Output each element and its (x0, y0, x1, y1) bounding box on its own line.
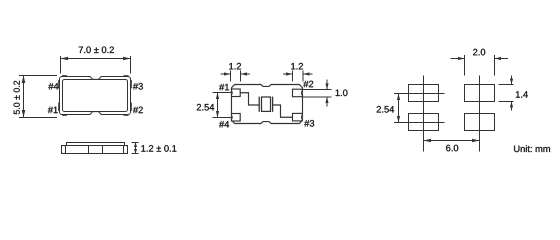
dimension 5.0 arrow down (22, 110, 26, 118)
dim 2.54 arrow up (216, 93, 219, 100)
crystal left plate (258, 97, 260, 112)
dim 1.0 arrow tails (326, 80, 328, 90)
dim 1.4 arrow tails (511, 76, 513, 85)
dimension 1.2 arrow down (134, 149, 137, 154)
dimension 1.2 line (135, 143, 137, 154)
dim 6.0 line (424, 140, 480, 142)
side view left end cap (62, 146, 66, 154)
dim 2.0 arrow pointing left (495, 57, 502, 60)
dimension text 1.4 (516, 91, 528, 97)
corner castellation step top-right (side) (130, 80, 132, 89)
pad #3 (bottom view bottom-right) (293, 113, 303, 121)
dim 1.4 ext line bottom (499, 101, 514, 103)
crystal right plate (272, 97, 274, 112)
pad label #1 (48, 107, 58, 113)
dim 1.4 ext line top (499, 84, 514, 86)
top edge notch erase (91, 76, 101, 78)
dim 1.2 left arrow pointing right (224, 72, 231, 75)
corner castellation step bottom-right (bottom) (124, 114, 129, 116)
dimension 7.0 arrow left (61, 57, 69, 61)
pad #1 castellation notch (231, 91, 234, 94)
pad label #4 (middle) (219, 121, 229, 127)
dim 2.0 ext line right (494, 55, 496, 76)
dimension 7.0 line (61, 58, 131, 60)
package lid inner outline (63, 80, 128, 112)
dim 1.2 left ext line a (230, 71, 232, 82)
dim 1.2 left arrow pointing left (241, 72, 248, 75)
land pad bottom-right (465, 114, 495, 131)
side view lid (67, 143, 125, 146)
dim 2.0 arrow tails (451, 58, 465, 60)
crystal body box (262, 97, 271, 111)
land pattern centerline horizontal bottom (394, 122, 445, 124)
pad label #1 (middle) (219, 84, 229, 90)
corner castellation step top-right (top) (124, 75, 129, 77)
pad label #3 (middle) (304, 120, 314, 127)
dim 2.54 arrow down (216, 111, 219, 118)
dim 1.2 right arrow pointing left (303, 72, 310, 75)
dimension text 5.0 +/- 0.2 (rotated) (14, 81, 20, 114)
dimension text 7.0 +/- 0.2 (79, 47, 114, 54)
dim 2.0 arrow pointing right (458, 57, 465, 60)
package bottom-view outline (chamfered corners, edge notches) (232, 85, 303, 124)
bottom edge notch (90, 112, 101, 114)
land pad bottom-left (409, 114, 439, 131)
side view seam line right (102, 146, 104, 154)
side view body (62, 146, 128, 154)
corner castellation step top-left (side) (58, 80, 60, 89)
dimension 5.0 extension line bottom (19, 117, 57, 119)
dimension text 2.54 (right view) (377, 106, 394, 113)
dim 1.2 right ext line b (302, 71, 304, 82)
dim 2.54 right arrow down (397, 116, 400, 123)
corner castellation step bottom-left (side) (58, 103, 60, 112)
redraw centerlines across pads (409, 85, 480, 131)
dim 6.0 arrow right (472, 139, 480, 143)
dimension 7.0 extension line right (130, 56, 132, 74)
dimension text 6.0 (446, 145, 458, 152)
package body outer outline (60, 77, 131, 115)
dim 1.0 arrow pointing up (325, 97, 328, 103)
dim 1.2 right ext line a (292, 71, 294, 82)
dimension 1.2 arrow up (134, 143, 137, 148)
dim 1.2 left ext line b (240, 71, 242, 82)
dim 1.0 ext line top (303, 89, 332, 91)
corner castellation step top-left (top) (62, 75, 67, 77)
bottom edge notch erase (91, 114, 101, 116)
pad label #3 (133, 83, 143, 90)
dim 2.0 ext line left (464, 55, 466, 76)
land pad top-left (409, 85, 439, 102)
dimension 7.0 arrow right (123, 57, 131, 61)
internal wire crystal to pad3 (273, 105, 293, 117)
dimension 5.0 arrow up (22, 76, 26, 84)
land pattern centerline vertical right (479, 76, 481, 152)
dim 1.4 arrow pointing up (510, 102, 513, 108)
dim 6.0 arrow left (424, 139, 432, 143)
dim 1.0 ext line bottom (303, 96, 332, 98)
dim 1.0 arrow pointing down (325, 84, 328, 90)
internal wire pad1 to crystal (240, 93, 259, 105)
land pad top-right (465, 85, 495, 102)
dim 1.4 arrow pointing down (510, 79, 513, 85)
unit note (514, 145, 550, 152)
pad #1 (bottom view top-left) (232, 89, 241, 97)
dimension text 1.2 +/- 0.1 (141, 145, 176, 152)
dimension 1.2 tick bottom (132, 153, 139, 155)
dimension 5.0 extension line top (19, 75, 57, 77)
corner castellation step bottom-left (bottom) (62, 114, 67, 116)
side view right end cap (124, 146, 128, 154)
corner castellation step bottom-right (side) (130, 103, 132, 112)
pad label #2 (middle) (303, 81, 313, 87)
pad #3 castellation notch (300, 116, 303, 119)
dim 2.54 ext line top (213, 92, 233, 94)
pad #2 (bottom view top-right) (293, 89, 303, 97)
dim 2.54 line (217, 93, 219, 118)
dim 1.2 right arrow pointing right (286, 72, 293, 75)
side view seam line left (88, 146, 90, 154)
dimension text 1.0 (336, 90, 348, 97)
dim 1.2 left arrow tails (221, 73, 231, 75)
pad label #2 (133, 107, 143, 113)
dimension 5.0 line (23, 76, 25, 118)
land pattern centerline horizontal top (394, 93, 445, 95)
pad #4 (bottom view bottom-left) (232, 114, 241, 122)
pad #2 castellation notch (300, 91, 303, 94)
dimension text 1.2 right (291, 63, 303, 69)
dim 2.54 right arrow up (397, 94, 400, 101)
pad label #4 (48, 83, 58, 89)
top edge notch (90, 77, 101, 79)
dimension 7.0 extension line left (60, 56, 62, 74)
dimension text 2.54 (middle view) (197, 104, 214, 111)
pad #4 castellation notch (231, 116, 234, 119)
dim 1.2 right arrow tails (283, 73, 293, 75)
dim 2.54 (right view) line (398, 94, 400, 123)
dimension text 1.2 left (229, 63, 241, 69)
dim 2.54 ext line bottom (213, 117, 233, 119)
land pattern centerline vertical left (423, 76, 425, 152)
dimension 1.2 tick top (132, 142, 139, 144)
dimension text 2.0 (473, 49, 485, 56)
